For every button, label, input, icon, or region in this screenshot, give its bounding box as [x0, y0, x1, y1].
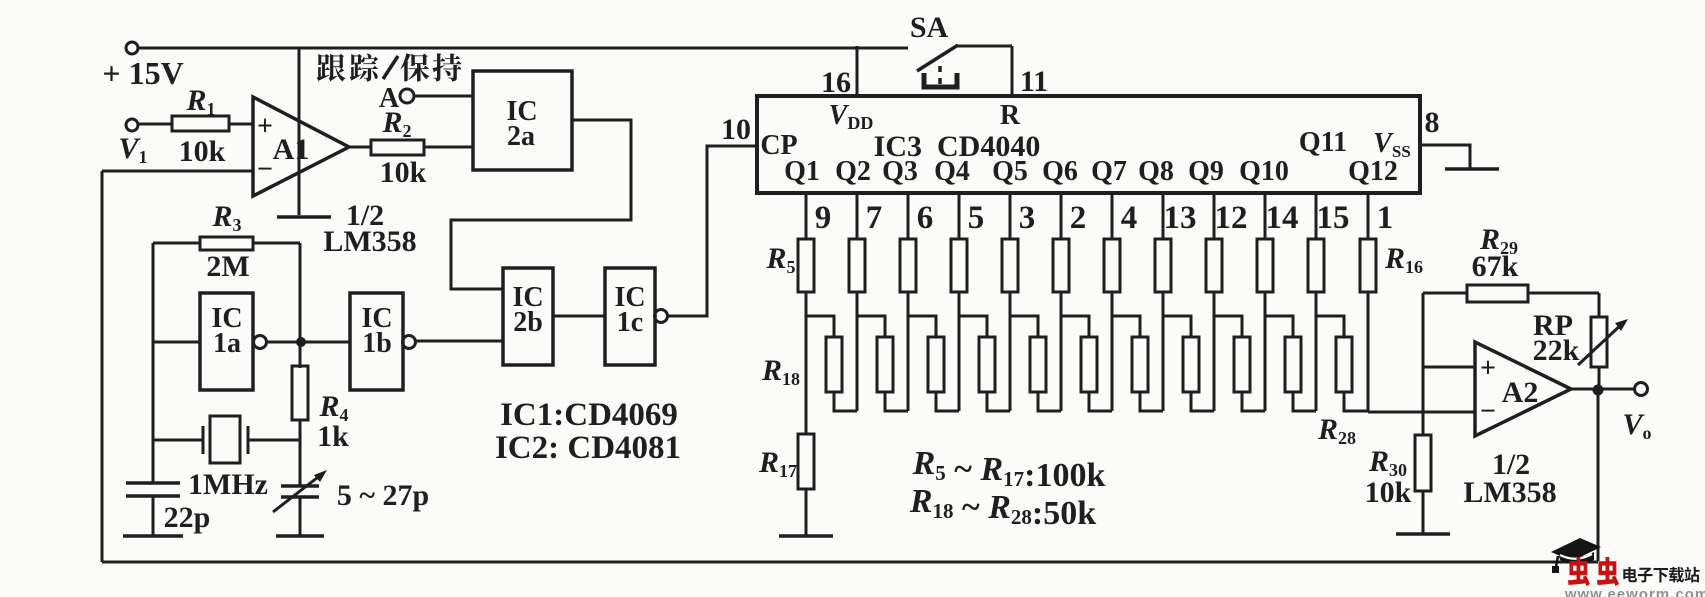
resistor R7 (100k) — [900, 239, 916, 292]
svg-text:Q9: Q9 — [1188, 156, 1224, 187]
wire ladder node 12 — [1367, 292, 1370, 411]
svg-text:www.eeworm.com: www.eeworm.com — [1564, 586, 1705, 597]
wire IC1b to IC2b — [416, 340, 503, 343]
resistor R10 (100k) — [1053, 239, 1069, 292]
wire to R27 — [1265, 316, 1293, 337]
svg-text:5: 5 — [968, 200, 985, 236]
wire R25 to node 9 — [1191, 392, 1214, 411]
resistor R4 — [292, 366, 308, 420]
wire VDD pin 16 — [856, 46, 859, 96]
wire ladder node 9 — [1213, 292, 1216, 411]
svg-text:10k: 10k — [179, 135, 226, 168]
wire IC2b to IC1c — [553, 315, 605, 318]
svg-text:67k: 67k — [1472, 250, 1519, 283]
resistor R12 (100k) — [1155, 239, 1171, 292]
svg-text:12: 12 — [1215, 200, 1248, 236]
wire R23 to node 7 — [1089, 392, 1112, 411]
wire RP to output node — [1598, 367, 1601, 389]
svg-text:Q10: Q10 — [1239, 156, 1289, 187]
wire R1 to A1+ — [229, 123, 253, 126]
crystal 1MHz — [202, 426, 205, 454]
svg-text:LM358: LM358 — [1463, 476, 1556, 509]
svg-text:1a: 1a — [213, 328, 241, 359]
wire A2 output — [1571, 388, 1634, 391]
svg-text:A2: A2 — [1502, 376, 1539, 409]
wire 22p to ground — [152, 496, 155, 536]
wire R21 to node 5 — [987, 392, 1010, 411]
IC1c output bubble — [655, 310, 668, 323]
wire to R23 — [1061, 316, 1089, 337]
wire to R19 — [857, 316, 885, 337]
svg-text:Q8: Q8 — [1138, 156, 1174, 187]
resistor R8 (100k) — [951, 239, 967, 292]
wire trimmer to ground — [299, 497, 302, 536]
svg-text:2: 2 — [1070, 200, 1087, 236]
wire R4 to trimmer — [299, 420, 302, 486]
wire left feedback rail — [101, 171, 104, 562]
resistor R19 (50k) — [877, 337, 893, 392]
svg-text:Q3: Q3 — [882, 156, 918, 187]
wire SA to pin 11 — [956, 45, 1012, 48]
wire R30 to ground — [1422, 491, 1425, 533]
wire Q8 output stub — [1162, 193, 1165, 239]
svg-text:11: 11 — [1020, 65, 1048, 98]
wire ladder node 3 — [907, 292, 910, 411]
svg-text:R: R — [1000, 100, 1021, 131]
node IC1a output junction — [296, 337, 306, 347]
gate IC2b — [503, 268, 553, 365]
wire Q12 output stub — [1367, 193, 1370, 239]
svg-text:9: 9 — [815, 200, 832, 236]
potentiometer RP — [1591, 317, 1607, 367]
wire ladder node 11 — [1315, 292, 1318, 411]
wire +15V top rail — [138, 47, 908, 50]
SA pushbutton actuator — [924, 73, 957, 87]
svg-text:3: 3 — [1019, 200, 1036, 236]
wire R17 to ground — [805, 489, 808, 536]
wire Q3 output stub — [907, 193, 910, 239]
svg-text:Q5: Q5 — [992, 156, 1028, 187]
wire ladder node 10 — [1264, 292, 1267, 411]
wire Q2 output stub — [856, 193, 859, 239]
wire Q5 output stub — [1009, 193, 1012, 239]
wire R28 to node 12 — [1344, 392, 1368, 411]
svg-text:A1: A1 — [273, 133, 310, 166]
wire oscillator left vertical — [152, 243, 155, 484]
wire VSS to ground — [1420, 145, 1470, 168]
resistor R2 — [371, 140, 424, 155]
svg-text:1MHz: 1MHz — [188, 468, 268, 501]
wire to R20 — [908, 316, 936, 337]
svg-text:+ 15V: + 15V — [102, 55, 183, 91]
wire ladder node 1 — [805, 292, 808, 411]
wire R20 to node 4 — [936, 392, 959, 411]
wire Q9 output stub — [1213, 193, 1216, 239]
resistor R1 — [172, 116, 229, 131]
wire to R21 — [959, 316, 987, 337]
wire to R24 — [1112, 316, 1140, 337]
svg-text:LM358: LM358 — [323, 225, 416, 258]
wire R29 to RP — [1528, 292, 1599, 295]
svg-text:SA: SA — [910, 11, 949, 44]
wire R26 to node 10 — [1242, 392, 1265, 411]
wire to A2 + — [1423, 366, 1475, 369]
resistor R13 (100k) — [1206, 239, 1222, 292]
wire ladder node 2 — [856, 292, 859, 411]
svg-text:5 ~ 27p: 5 ~ 27p — [337, 479, 429, 512]
svg-text:−: − — [1480, 396, 1496, 427]
svg-text:1: 1 — [1377, 200, 1394, 236]
wire R pin 11 — [1011, 46, 1014, 96]
wire IC2a output to IC2b — [451, 120, 631, 289]
wire IC1c to CP pin 10 — [668, 146, 757, 316]
wire to R18 — [806, 316, 834, 337]
resistor R15 (100k) — [1308, 239, 1324, 292]
svg-text:IC2: CD4081: IC2: CD4081 — [495, 430, 681, 466]
watermark logo cap — [1551, 538, 1601, 561]
terminal Vo — [1635, 383, 1648, 396]
svg-text:IC1:CD4069: IC1:CD4069 — [500, 397, 678, 433]
resistor R28 (50k) — [1336, 337, 1352, 392]
wire ladder node 4 — [958, 292, 961, 411]
terminal A — [400, 89, 414, 103]
svg-text:Q12: Q12 — [1348, 156, 1398, 187]
svg-text:2M: 2M — [206, 250, 249, 283]
wire R27 to node 11 — [1293, 392, 1316, 411]
svg-text:2b: 2b — [513, 307, 543, 338]
svg-text:22k: 22k — [1533, 334, 1580, 367]
svg-text:1c: 1c — [617, 307, 643, 338]
svg-text:16: 16 — [821, 66, 851, 99]
wire to R22 — [1010, 316, 1038, 337]
wire A1 inverting input — [102, 170, 253, 173]
wire R2 to IC2a — [424, 146, 473, 149]
resistor R29 — [1467, 285, 1528, 302]
wire IC1a input — [153, 341, 200, 344]
svg-text:10k: 10k — [1365, 476, 1412, 509]
svg-text:A: A — [379, 83, 400, 114]
resistor R22 (50k) — [1030, 337, 1046, 392]
resistor R27 (50k) — [1285, 337, 1301, 392]
svg-text:10: 10 — [721, 113, 751, 146]
op-amp A2 — [1475, 342, 1571, 436]
wire to R29 — [1423, 292, 1467, 295]
gate IC2a — [473, 71, 572, 170]
wire A1 supply drop — [298, 48, 301, 215]
resistor R23 (50k) — [1081, 337, 1097, 392]
resistor R25 (50k) — [1183, 337, 1199, 392]
svg-text:6: 6 — [917, 200, 934, 236]
svg-text:1k: 1k — [317, 420, 349, 453]
svg-text:Q6: Q6 — [1042, 156, 1078, 187]
node A2 output junction — [1593, 385, 1604, 396]
label 跟踪/保持 — [317, 54, 346, 82]
resistor R24 (50k) — [1132, 337, 1148, 392]
wire bottom feedback rail — [102, 561, 1598, 564]
resistor R30 — [1415, 435, 1431, 491]
svg-text:1b: 1b — [362, 328, 392, 359]
ground R30 — [1396, 532, 1450, 536]
wire V1 to R1 — [138, 123, 172, 126]
resistor R20 (50k) — [928, 337, 944, 392]
IC1b output bubble — [403, 336, 416, 349]
ground bar A1 — [277, 215, 331, 219]
trimmer capacitor 5~27p — [281, 484, 319, 488]
svg-text:4: 4 — [1121, 200, 1138, 236]
wire R19 to node 3 — [885, 392, 908, 411]
resistor R11 (100k) — [1104, 239, 1120, 292]
svg-text:Q1: Q1 — [784, 156, 820, 187]
wire into RP — [1598, 293, 1601, 317]
watermark 电子下载站 — [1623, 567, 1637, 582]
wire Q4 output stub — [958, 193, 961, 239]
wire feedback down — [1597, 390, 1600, 561]
resistor R3 — [200, 237, 253, 250]
inverter IC1c — [605, 268, 655, 365]
svg-text:Q4: Q4 — [934, 156, 970, 187]
wire ladder node 5 — [1009, 292, 1012, 411]
wire Q10 output stub — [1264, 193, 1267, 239]
resistor R21 (50k) — [979, 337, 995, 392]
op-amp A1 — [253, 97, 349, 196]
ground R17 — [779, 534, 833, 538]
wire R24 to node 8 — [1140, 392, 1163, 411]
resistor R18 (50k) — [826, 337, 842, 392]
svg-text:+: + — [1480, 353, 1496, 384]
wire Q7 output stub — [1111, 193, 1114, 239]
wire Q11 output stub — [1315, 193, 1318, 239]
terminal +15V — [126, 42, 138, 54]
svg-text:10k: 10k — [380, 156, 427, 189]
counter IC3 CD4040 — [757, 96, 1420, 193]
ground VSS — [1445, 167, 1499, 171]
inverter IC1a — [200, 293, 253, 390]
watermark 虫虫 red — [1568, 557, 1590, 586]
capacitor 22p — [126, 481, 180, 485]
wire R3 to node — [299, 243, 302, 368]
resistor R9 (100k) — [1002, 239, 1018, 292]
wire crystal right — [248, 439, 300, 442]
svg-text:+: + — [257, 111, 273, 142]
inverter IC1b — [350, 293, 403, 390]
wire to R28 — [1316, 316, 1344, 337]
svg-text:15: 15 — [1317, 200, 1350, 236]
wire ladder output to A2 inverting — [1368, 411, 1475, 414]
wire R22 to node 6 — [1038, 392, 1061, 411]
svg-text:22p: 22p — [164, 501, 211, 534]
wire A to IC2a — [414, 95, 473, 98]
resistor R16 (100k) — [1360, 239, 1376, 292]
wire crystal left — [153, 439, 203, 442]
svg-text:−: − — [257, 154, 273, 185]
wire A1 output — [349, 146, 371, 149]
wire ladder node 7 — [1111, 292, 1114, 411]
svg-text:Q2: Q2 — [835, 156, 871, 187]
svg-text:Q7: Q7 — [1091, 156, 1127, 187]
svg-text:7: 7 — [866, 200, 883, 236]
svg-text:2a: 2a — [507, 121, 535, 152]
switch SA — [917, 45, 958, 71]
wire Q1 output stub — [805, 193, 808, 239]
terminal V1 input — [126, 119, 138, 131]
wire Q6 output stub — [1060, 193, 1063, 239]
svg-text:8: 8 — [1425, 106, 1440, 139]
wire R3 right — [253, 242, 300, 245]
resistor R14 (100k) — [1257, 239, 1273, 292]
wire IC1a to IC1b — [267, 341, 350, 344]
svg-text:14: 14 — [1266, 200, 1299, 236]
resistor R17 — [798, 434, 814, 489]
wire ladder node 6 — [1060, 292, 1063, 411]
svg-text:Q11: Q11 — [1299, 127, 1347, 158]
ground 22p — [123, 534, 183, 538]
wire ladder node 8 — [1162, 292, 1165, 411]
IC1a output bubble — [254, 336, 267, 349]
wire R3 left — [153, 242, 200, 245]
svg-text:13: 13 — [1164, 200, 1197, 236]
resistor R26 (50k) — [1234, 337, 1250, 392]
resistor R6 (100k) — [849, 239, 865, 292]
wire to R25 — [1163, 316, 1191, 337]
ground trimmer — [276, 534, 324, 538]
wire node1 to R17 — [805, 411, 808, 434]
wire R18 to node 2 — [834, 392, 857, 411]
wire to R26 — [1214, 316, 1242, 337]
resistor R5 (100k) — [798, 239, 814, 292]
wire A2 non-inverting branch — [1422, 293, 1425, 435]
